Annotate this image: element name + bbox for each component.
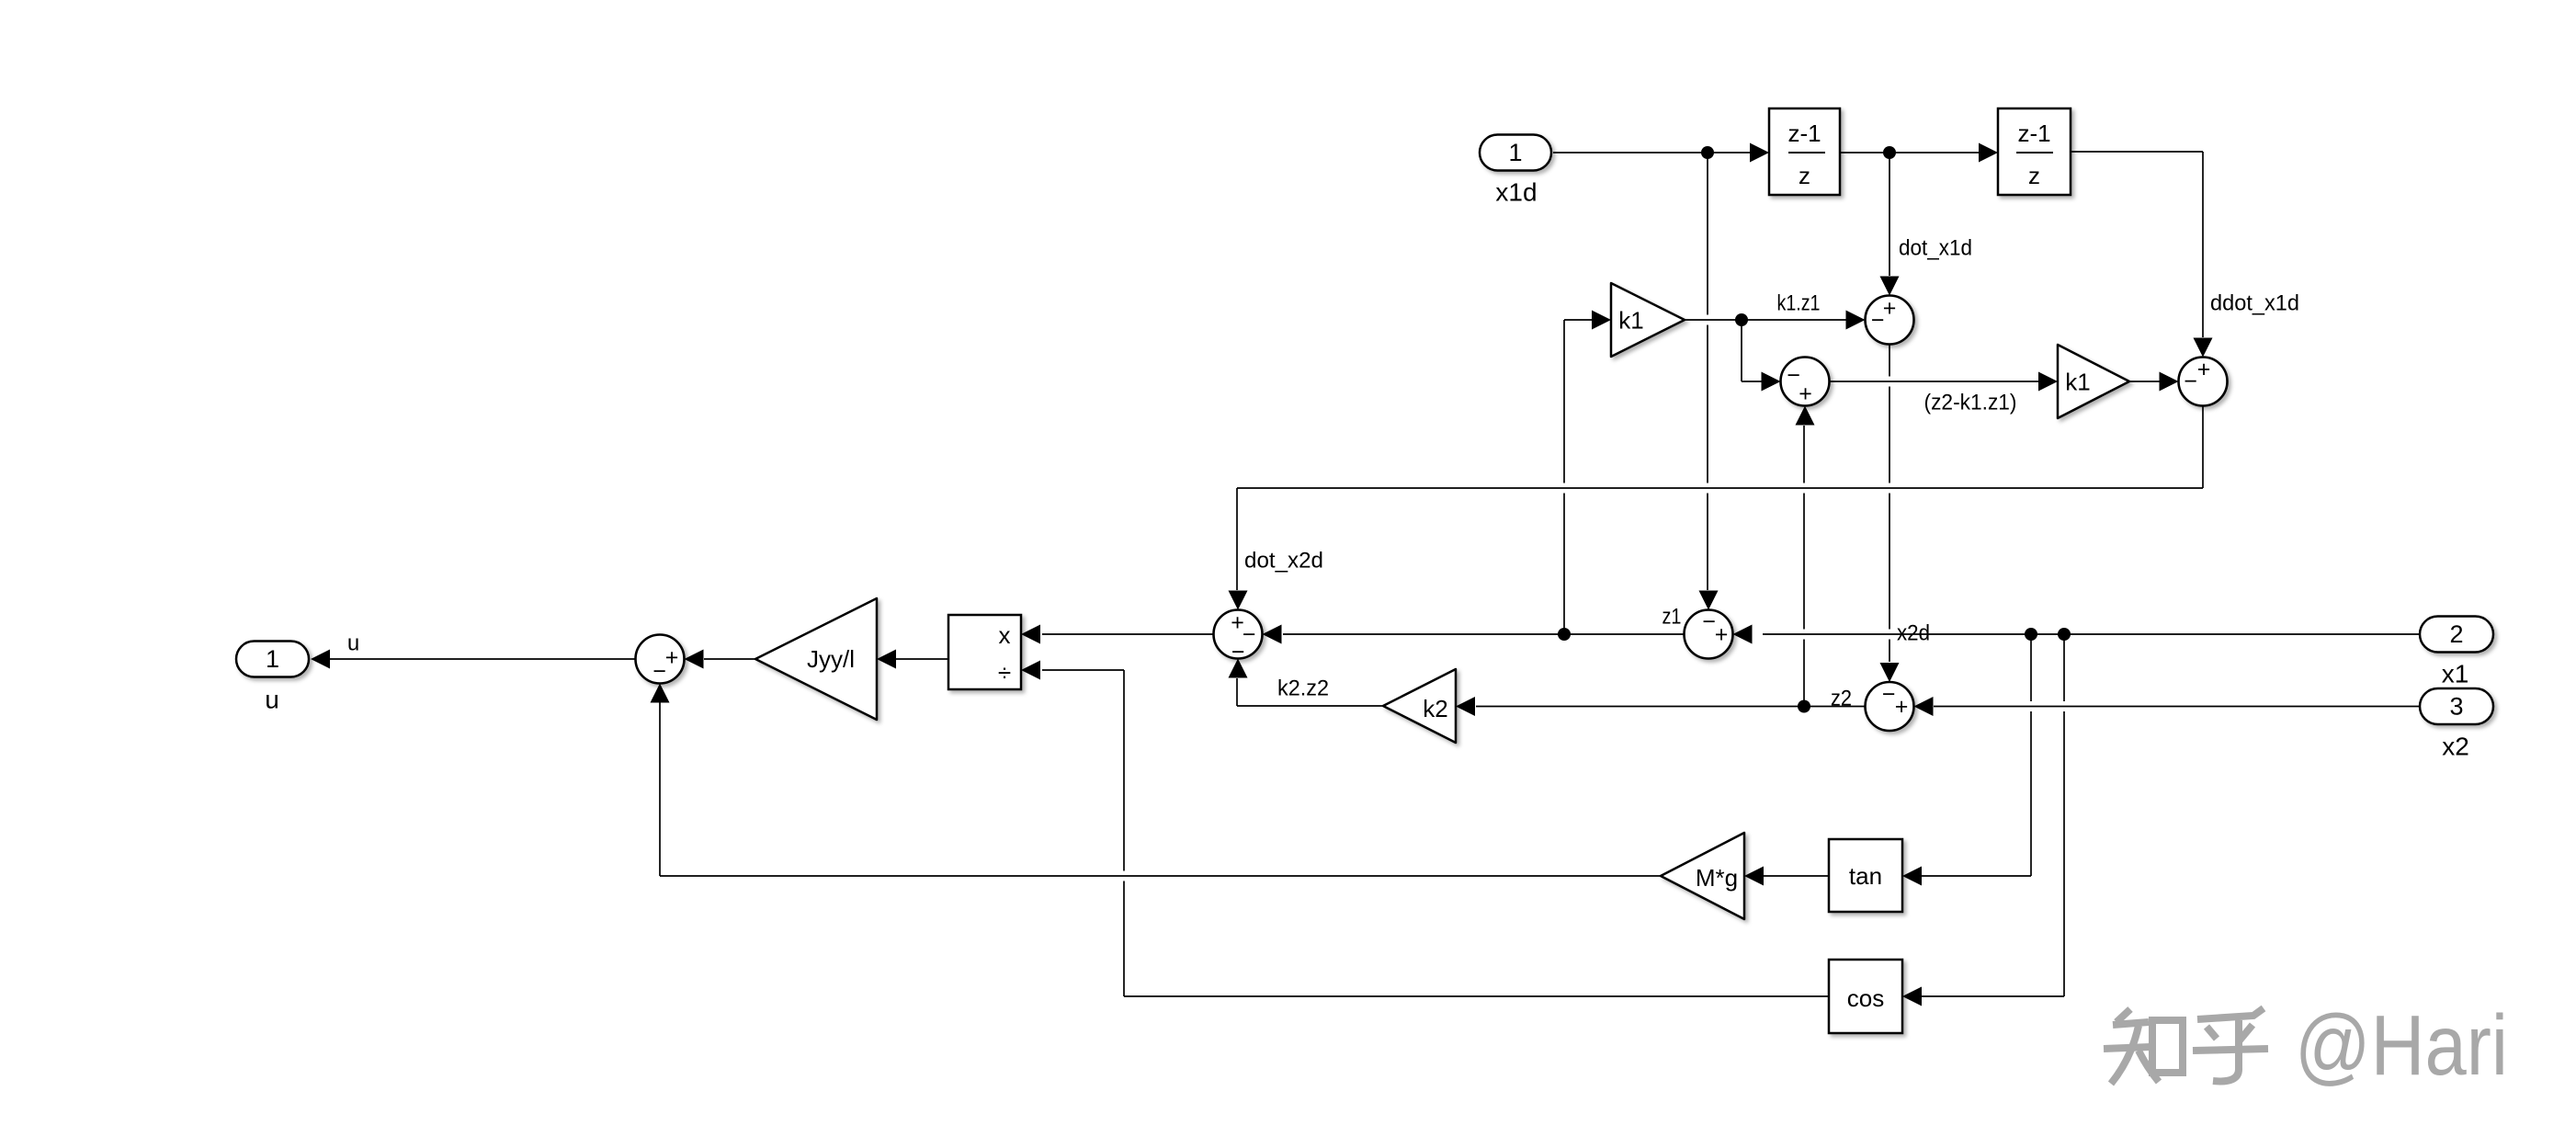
wire M*g feedback up to sum S4 (659, 702, 661, 876)
wire x1 to tan (1922, 875, 2031, 877)
wire x1 to sum z1 (1763, 630, 2420, 640)
wire sum S5 output to product (1042, 633, 1214, 635)
svg-text:x2: x2 (2442, 733, 2469, 761)
wire sum S4 to output port u (330, 658, 636, 660)
svg-text:k1: k1 (1618, 307, 1643, 335)
svg-text:−: − (653, 659, 666, 685)
discrete derivative block 2 (z-1)/z (1998, 108, 2071, 195)
svg-text:3: 3 (2449, 693, 2463, 721)
wire cos output (1124, 995, 1829, 997)
svg-text:cos: cos (1847, 984, 1884, 1012)
svg-text:+: + (1883, 296, 1897, 322)
wire k1.z1 branch to sum S2 (1742, 381, 1763, 382)
arrow into k1 gain 1 (1592, 311, 1611, 330)
arrow into sum S4 bottom (651, 684, 670, 703)
arrow into output port u (311, 650, 330, 669)
wire k1.z1 to sum S1 (1685, 315, 1846, 325)
arrow into derivative 2 (1979, 143, 1998, 163)
sum z1 = x1 - x1d (1685, 609, 1733, 659)
arrow into derivative 1 (1750, 143, 1769, 163)
svg-text:−: − (1231, 640, 1245, 665)
svg-text:−: − (2184, 369, 2197, 394)
wire dot_x2d feedback row (1237, 483, 2203, 494)
wire k2.z2 up to sum S5 (1236, 678, 1238, 706)
node z1 branch (1558, 628, 1571, 641)
label dot_x1d (1899, 236, 1972, 261)
watermark zhihu glyph 知 (2104, 1009, 2183, 1084)
wire x1 down to tan (2030, 634, 2032, 876)
wire x1d branch down to sum z1 (1707, 153, 1708, 590)
wire z1 to sum S5 (1283, 633, 1685, 635)
input port 2 x1 (2420, 617, 2493, 688)
arrow into sum S2 bottom (1796, 406, 1815, 426)
svg-text:1: 1 (266, 645, 279, 673)
gain k1 (second) (2058, 345, 2129, 418)
input port 1 x1d (1480, 135, 1551, 207)
wire derivative 2 output to corner (2071, 151, 2203, 153)
sum S2 z2 minus k1.z1 (1781, 358, 1830, 407)
arrow into sum z1 top (1699, 591, 1719, 610)
svg-text:u: u (265, 686, 279, 714)
svg-text:k2.z2: k2.z2 (1277, 676, 1329, 701)
wire M*g output feedback (660, 871, 1661, 881)
svg-text:+: + (1799, 381, 1812, 407)
svg-text:x2d: x2d (1897, 621, 1930, 646)
node x1 branch to tan (2025, 628, 2037, 641)
svg-text:dot_x1d: dot_x1d (1899, 236, 1972, 261)
watermark zhihu glyph 乎 (2193, 1008, 2268, 1081)
wire dot_x1d down to sum S1 (1889, 153, 1890, 276)
arrow into sum S5 top (1229, 591, 1248, 610)
wire x1 down to cos (2063, 634, 2065, 996)
arrow into sum S1 left (1846, 311, 1866, 330)
svg-text:+: + (1895, 694, 1909, 720)
sum S4 output sum (636, 635, 685, 685)
label dot_x2d (1244, 549, 1323, 574)
svg-text:2: 2 (2449, 620, 2463, 648)
wire dot_x2d down to sum S5 (1236, 488, 1238, 590)
svg-text:M*g: M*g (1696, 864, 1738, 892)
arrow into sum S5 right (1263, 625, 1282, 644)
node x1 branch to cos (2058, 628, 2071, 641)
trig block cos (1829, 960, 1902, 1033)
arrow into sum z1 right (1733, 625, 1753, 644)
arrow into sum S2 left (1762, 372, 1781, 392)
trig block tan (1829, 839, 1902, 912)
svg-text:÷: ÷ (998, 659, 1011, 687)
wire riser to product divide input (1042, 669, 1124, 671)
node dot_x1d branch (1883, 146, 1896, 159)
input port 3 x2 (2420, 688, 2493, 761)
svg-text:x1d: x1d (1495, 178, 1537, 207)
product block x divide (948, 615, 1021, 689)
label z1 (1662, 605, 1682, 630)
arrow into k1 gain 2 (2038, 372, 2058, 392)
svg-text:ddot_x1d: ddot_x1d (2210, 291, 2299, 316)
svg-text:−: − (1871, 308, 1885, 334)
arrow into sum S1 top (1880, 277, 1900, 296)
output port 1 u (236, 642, 309, 714)
wire (z2-k1.z1) sum S2 to k1 gain 2 (1830, 377, 2040, 387)
wire riser to k1 gain input (1564, 319, 1594, 321)
wire derivative 1 to derivative 2 (1840, 152, 1979, 153)
discrete derivative block 1 (z-1)/z (1769, 108, 1840, 195)
svg-text:z: z (1799, 162, 1810, 189)
gain M*g (1661, 833, 1744, 919)
label x2d (1897, 621, 1930, 646)
svg-text:+: + (2197, 357, 2211, 382)
svg-text:+: + (665, 645, 679, 671)
wire z2 output to k2 gain (1476, 706, 1866, 708)
node x1d branch (1701, 146, 1714, 159)
wire x2 to sum z2 (1934, 701, 2420, 711)
svg-text:tan: tan (1849, 862, 1882, 890)
node k1.z1 branch (1735, 313, 1748, 326)
sum S5 dot_x2d minus z1 minus k2.z2 (1214, 610, 1263, 665)
arrow into sum S5 bottom (1229, 659, 1248, 678)
svg-text:u: u (347, 631, 359, 656)
wire sum S3 output down to feedback row (2202, 406, 2204, 489)
node z2 branch (1798, 700, 1810, 713)
svg-text:(z2-k1.z1): (z2-k1.z1) (1924, 391, 2017, 415)
svg-text:k2: k2 (1423, 695, 1447, 722)
arrow into k2 gain (1456, 697, 1475, 716)
svg-text:Jyy/l: Jyy/l (807, 645, 855, 673)
label ddot_x1d (2210, 291, 2299, 316)
arrow into sum z2 top (1880, 663, 1900, 682)
svg-text:−: − (1882, 682, 1896, 708)
svg-text:k1.z1: k1.z1 (1777, 291, 1821, 316)
arrow into sum S3 left (2160, 372, 2179, 392)
gain Jyy/l (755, 598, 877, 720)
arrow into product divide input (1021, 661, 1040, 680)
svg-text:z2: z2 (1831, 687, 1852, 711)
arrow into Jyy/l gain (877, 650, 896, 669)
wire ddot_x1d down to sum S3 (2202, 152, 2204, 337)
label (z2-k1.z1) (1924, 391, 2017, 415)
label k2.z2 (1277, 676, 1329, 701)
svg-text:−: − (1702, 609, 1716, 635)
svg-text:z1: z1 (1662, 605, 1682, 630)
svg-text:z-1: z-1 (1787, 119, 1821, 147)
wire k1.z1 branch down to sum S2 (1741, 320, 1742, 381)
arrow into tan (1902, 867, 1922, 886)
svg-text:z-1: z-1 (2017, 119, 2050, 147)
svg-text:+: + (1715, 622, 1729, 648)
arrow into product x input (1021, 625, 1040, 644)
watermark @Hari (2295, 997, 2508, 1093)
wire x2d from sum S1 down to sum z2 (1889, 345, 1890, 663)
arrow into M*g gain (1744, 867, 1764, 886)
sum z2 = x2 - x2d (1866, 682, 1914, 732)
wire tan to M*g (1764, 875, 1829, 877)
wire k2 output to corner (1237, 705, 1383, 707)
wire x1d input to derivative 1 (1553, 152, 1750, 153)
svg-text:x: x (999, 621, 1011, 649)
sum S1 dot_x1d minus k1.z1 (1866, 296, 1914, 345)
wire k1 gain 2 to sum S3 (2129, 381, 2160, 382)
arrow into sum S3 top (2194, 338, 2213, 358)
svg-text:1: 1 (1508, 139, 1522, 166)
svg-text:k1: k1 (2065, 369, 2090, 396)
svg-text:dot_x2d: dot_x2d (1244, 549, 1323, 574)
wire cos output riser to product (1123, 670, 1125, 996)
svg-text:z: z (2028, 162, 2040, 189)
wire product to Jyy/l (896, 658, 948, 660)
label z2 (1831, 687, 1852, 711)
arrow into cos (1902, 987, 1922, 1006)
wire z2 up to sum S2 (1803, 426, 1805, 707)
wire x1 to cos (1922, 995, 2064, 997)
gain k2 (1383, 669, 1456, 743)
gain k1 (first) (1611, 283, 1685, 357)
svg-text:@Hari: @Hari (2295, 997, 2508, 1093)
sum S3 ddot_x1d minus k1(z2-k1.z1) (2179, 357, 2228, 406)
svg-text:x1: x1 (2442, 660, 2469, 688)
arrow into sum z2 right (1914, 697, 1934, 716)
arrow into sum S4 right (685, 650, 704, 669)
wire k1 gain input riser (1563, 320, 1565, 634)
label u on wire (347, 631, 359, 656)
wire Jyy/l to sum S4 (704, 658, 755, 660)
label k1.z1 (1777, 291, 1821, 316)
